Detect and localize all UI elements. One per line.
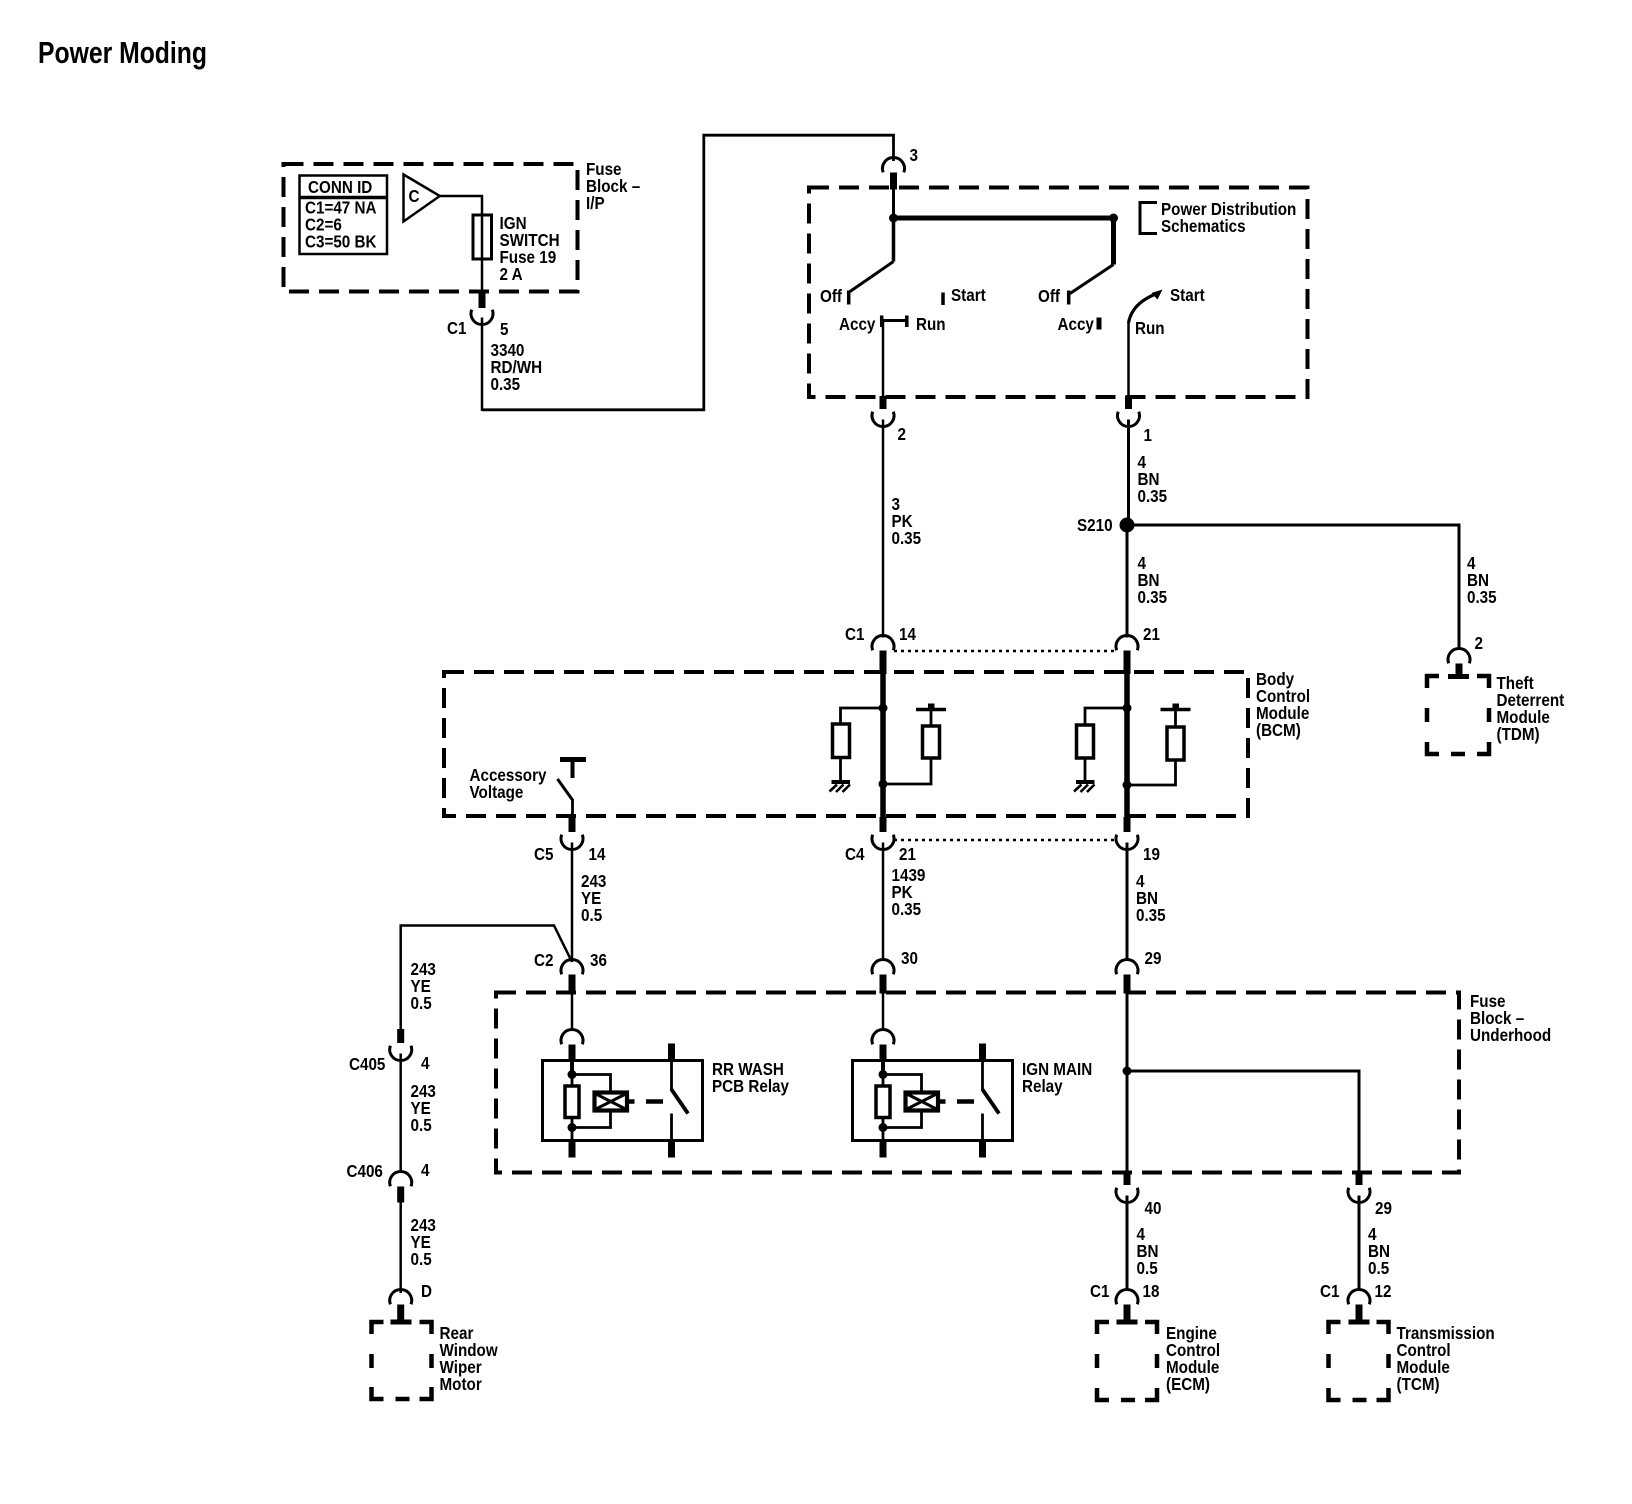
Start terminal tick 1 (941, 293, 945, 306)
wire bar to R2 (930, 711, 933, 726)
accessory voltage label (470, 765, 547, 802)
connector 21 arc (1116, 635, 1138, 650)
svg-text:3: 3 (910, 145, 919, 165)
svg-text:40: 40 (1145, 1198, 1162, 1218)
connector 21 stub (1124, 651, 1131, 675)
Accy terminal tick 2 (1097, 318, 1102, 330)
wire C4 to 30 (882, 843, 885, 962)
relay 2 coil feed wire (881, 1061, 885, 1075)
voltage bar above R2 (916, 708, 946, 712)
connector C5 stub (569, 817, 576, 832)
fuse IGN SWITCH Fuse 19 (473, 215, 492, 259)
wire S210 branch to TDM (1127, 525, 1459, 648)
node junction right top (1123, 704, 1132, 713)
connector 2 stub (880, 396, 887, 409)
svg-text:0.35: 0.35 (1467, 587, 1497, 607)
BCM left main wire (880, 660, 886, 830)
resistor R1 (833, 724, 850, 758)
relay 2 switch lower wire (981, 1114, 984, 1141)
relay 2 resistor wires (882, 1075, 885, 1128)
relay 2 coil junction top (879, 1070, 888, 1079)
IGN MAIN relay box (853, 1061, 1013, 1141)
connector 2 TDM arc (1448, 648, 1470, 663)
relay 1 resistor wires (571, 1075, 574, 1128)
Off terminal tick 2 (1067, 291, 1071, 305)
wire to resistor R1 (841, 708, 884, 724)
wire bar to R4 (1174, 711, 1177, 727)
relay 2 switch bottom stub (979, 1141, 986, 1158)
svg-text:C405: C405 (349, 1054, 386, 1074)
svg-text:4: 4 (421, 1053, 430, 1073)
connector D stub (397, 1305, 404, 1322)
wire label 4 BN 0.5 (TCM) (1368, 1224, 1390, 1278)
power distribution label (1161, 199, 1296, 236)
Start arrowhead 2 (1152, 290, 1163, 300)
svg-text:C4: C4 (845, 844, 865, 864)
connector C1 pin 5 arc (471, 310, 493, 325)
Accy-Run link bar 1 (882, 319, 907, 322)
RR WASH relay box (543, 1061, 703, 1141)
wire C2 into fuse block (571, 994, 574, 1031)
svg-text:PCB Relay: PCB Relay (712, 1076, 789, 1096)
svg-text:Run: Run (1135, 318, 1165, 338)
svg-text:Run: Run (916, 314, 946, 334)
relay 2 coil X-box (906, 1093, 939, 1111)
svg-text:C5: C5 (534, 844, 554, 864)
relay 1 coil junction top (568, 1070, 577, 1079)
connector C406 stub (397, 1187, 404, 1203)
svg-text:2 A: 2 A (500, 264, 523, 284)
wafer 1 output wire (882, 321, 885, 397)
switch wafer 2 input wire (1111, 218, 1116, 265)
wire across and up to connector 3 (482, 135, 894, 410)
connector 29 bottom arc (1348, 1188, 1370, 1203)
relay 1 switch blade (672, 1090, 689, 1114)
fuse block underhood dashed box (496, 993, 1459, 1173)
BCM label (1256, 669, 1310, 740)
switch wafer 1 blade to Off (850, 262, 894, 292)
svg-text:29: 29 (1145, 948, 1162, 968)
ECM dashed box (1097, 1322, 1157, 1400)
relay 1 switch lower wire (670, 1114, 673, 1141)
TDM label (1497, 673, 1565, 744)
connector C1 pin 5 stub (479, 293, 486, 308)
wire triangle to fuse (440, 196, 482, 215)
svg-text:2: 2 (1475, 633, 1484, 653)
svg-text:C1: C1 (1090, 1281, 1110, 1301)
relay 1 resistor (565, 1086, 579, 1118)
node junction left top (879, 704, 888, 713)
svg-text:14: 14 (589, 844, 606, 864)
svg-text:36: 36 (590, 950, 607, 970)
wire label 4 BN 0.35 (TDM branch) (1467, 553, 1497, 607)
TDM pin bar (1448, 674, 1469, 679)
ground (left wire) (830, 782, 851, 792)
resistor R4 (1167, 727, 1184, 760)
relay 1 coil bottom stub (569, 1141, 576, 1158)
svg-text:Motor: Motor (440, 1374, 482, 1394)
svg-text:C: C (409, 186, 420, 206)
connector C1/14 arc (872, 635, 894, 650)
wire label 3 PK 0.35 (892, 494, 922, 548)
wire label 4 BN 0.5 (ECM) (1137, 1224, 1159, 1278)
relay 2 mech link dashes (938, 1099, 974, 1104)
svg-text:C3=50 BK: C3=50 BK (305, 232, 377, 252)
wire C405 to C406 (399, 1054, 402, 1173)
relay 2 coil bottom wire (882, 1128, 885, 1141)
svg-text:30: 30 (901, 948, 918, 968)
relay 2 switch blade (983, 1090, 1000, 1114)
svg-text:Voltage: Voltage (470, 782, 524, 802)
wire label 4 BN 0.35 (19) (1136, 871, 1166, 925)
connector C1/18 stub (1124, 1305, 1131, 1322)
wire C406 to D (399, 1202, 402, 1293)
wire through fuse down to box edge (481, 215, 484, 293)
rear window wiper motor dashed box (372, 1322, 432, 1399)
svg-text:21: 21 (899, 844, 916, 864)
svg-text:0.35: 0.35 (491, 374, 521, 394)
connector 3 arc (883, 157, 905, 172)
connector 1 stub (1125, 396, 1132, 409)
fuse block I/P dashed box (284, 164, 578, 292)
BCM dashed box (444, 672, 1248, 816)
connector triangle C (404, 175, 440, 222)
connector 29 arc (1116, 959, 1138, 974)
wire label 4 BN 0.35 (upper) (1138, 452, 1168, 506)
TCM pin bar (1349, 1320, 1370, 1325)
svg-text:C406: C406 (347, 1161, 384, 1181)
wire R3 to ground (1084, 758, 1087, 782)
Off terminal tick 1 (847, 291, 851, 305)
svg-text:4: 4 (421, 1160, 430, 1180)
connector C406 arc (390, 1171, 412, 1186)
TCM label (1397, 1323, 1495, 1394)
svg-text:0.35: 0.35 (1136, 905, 1166, 925)
connector C1/12 stub (1356, 1305, 1363, 1322)
IGN MAIN relay label (1022, 1059, 1092, 1096)
wire label 1439 PK 0.35 (892, 865, 926, 919)
svg-text:0.5: 0.5 (581, 905, 602, 925)
wire stub into junction (892, 189, 895, 218)
svg-text:0.35: 0.35 (1138, 486, 1168, 506)
svg-text:18: 18 (1143, 1281, 1160, 1301)
relay 1 coil loop (572, 1075, 611, 1128)
ground (right wire) (1074, 782, 1095, 792)
node junction left bottom (879, 780, 888, 789)
relay 1 coil bottom wire (571, 1128, 574, 1141)
svg-text:12: 12 (1375, 1281, 1392, 1301)
svg-text:(TDM): (TDM) (1497, 724, 1540, 744)
svg-text:1: 1 (1144, 425, 1153, 445)
relay 1 switch bottom stub (668, 1141, 675, 1158)
svg-text:(TCM): (TCM) (1397, 1374, 1440, 1394)
relay 1 coil X-box (595, 1093, 628, 1111)
svg-text:Schematics: Schematics (1161, 216, 1246, 236)
power distribution bracket (1140, 203, 1157, 234)
connector C2 arc (561, 959, 583, 974)
relay 2 switch top stub (979, 1044, 986, 1061)
wire R4 down (1127, 760, 1176, 785)
connector C1/12 arc (1348, 1289, 1370, 1304)
relay socket stub (RR WASH) (569, 1045, 576, 1061)
voltage bar tick 2 (1173, 704, 1180, 710)
svg-text:S210: S210 (1077, 515, 1113, 535)
svg-text:D: D (421, 1281, 432, 1301)
svg-text:19: 19 (1143, 844, 1160, 864)
accessory voltage contact stem (571, 762, 575, 778)
svg-text:0.35: 0.35 (892, 899, 922, 919)
svg-text:Start: Start (1170, 285, 1205, 305)
wire label 4 BN 0.35 (below S210) (1138, 553, 1168, 607)
relay 1 mech link dashes (627, 1099, 663, 1104)
TDM dashed box (1427, 676, 1489, 754)
relay socket arc (IGN MAIN) (872, 1029, 894, 1044)
relay 1 switch upper wire (670, 1061, 673, 1092)
wire label 243 YE 0.5 (C406) (411, 1215, 437, 1269)
svg-text:Accy: Accy (839, 314, 876, 334)
svg-text:0.35: 0.35 (892, 528, 922, 548)
connector 29 bottom stub (1356, 1172, 1363, 1185)
svg-text:Off: Off (820, 286, 842, 306)
wire 40 to C1/18 (1126, 1196, 1129, 1292)
connector 30 stub (880, 975, 887, 994)
splice S210 (1120, 518, 1135, 533)
wire 1 to S210 (1127, 420, 1130, 526)
svg-text:21: 21 (1143, 624, 1160, 644)
wire 29 to C1/12 (1358, 1196, 1361, 1292)
connector C1/18 arc (1116, 1289, 1138, 1304)
TCM dashed box (1329, 1322, 1389, 1400)
connector 2 TDM stub (1456, 664, 1463, 677)
fuse label (500, 213, 560, 284)
svg-text:Start: Start (951, 285, 986, 305)
connector 40 arc (1116, 1188, 1138, 1203)
resistor R3 (1077, 725, 1094, 758)
svg-text:0.5: 0.5 (1137, 1258, 1158, 1278)
svg-text:2: 2 (898, 424, 907, 444)
svg-text:CONN ID: CONN ID (308, 177, 372, 197)
wire 30 into fuse block (882, 994, 885, 1031)
relay 2 resistor (876, 1086, 890, 1118)
branch wire to TCM side (1127, 1071, 1359, 1172)
connector 3 stub (890, 173, 897, 190)
Run terminal tick 1 (905, 316, 909, 328)
connector 19 stub (1124, 817, 1131, 832)
wire label 243 YE 0.5 (C5) (581, 871, 607, 925)
svg-text:0.5: 0.5 (411, 1115, 432, 1135)
wire R2 down (883, 758, 931, 784)
connector 40 stub (1124, 1172, 1131, 1185)
svg-text:5: 5 (500, 319, 509, 339)
svg-text:I/P: I/P (586, 193, 605, 213)
connector C4 stub (880, 817, 887, 832)
wafer 2 output wire (1127, 322, 1130, 396)
svg-text:Relay: Relay (1022, 1076, 1063, 1096)
connector D arc (390, 1289, 412, 1304)
connector C405 stub (397, 1029, 404, 1043)
connector C1/14 stub (880, 651, 887, 675)
ECM pin bar (1117, 1320, 1138, 1325)
RR WASH relay label (712, 1059, 789, 1096)
relay 2 coil loop (883, 1075, 922, 1128)
node junction right bottom (1123, 781, 1132, 790)
ignition switch dashed box (809, 188, 1308, 398)
wire to resistor R3 (1085, 708, 1127, 725)
wire 29 through fuse block (1126, 994, 1129, 1173)
accessory voltage switch blade (558, 779, 573, 800)
connector C405 arc (390, 1046, 412, 1061)
relay 2 coil bottom stub (880, 1141, 887, 1158)
svg-text:Underhood: Underhood (1470, 1025, 1551, 1045)
connector C5 arc (561, 835, 583, 850)
relay socket arc (RR WASH) (561, 1029, 583, 1044)
switch wafer 1 input wire (892, 218, 896, 262)
relay 1 switch top stub (668, 1044, 675, 1061)
svg-text:29: 29 (1375, 1198, 1392, 1218)
connector C2 stub (569, 975, 576, 994)
svg-text:(ECM): (ECM) (1166, 1374, 1210, 1394)
svg-text:Off: Off (1038, 286, 1060, 306)
svg-text:C2: C2 (534, 950, 554, 970)
voltage bar tick (928, 704, 935, 710)
wire 19 to 29 (1126, 843, 1129, 962)
feed wire junction to junction (894, 216, 1114, 221)
svg-text:0.5: 0.5 (411, 993, 432, 1013)
svg-text:0.5: 0.5 (411, 1249, 432, 1269)
wire label 243 YE 0.5 (branch) (411, 959, 437, 1013)
wire R1 to ground (839, 758, 842, 783)
switch wafer 2 blade to Off (1070, 265, 1114, 294)
svg-text:0.35: 0.35 (1138, 587, 1168, 607)
connector 1 arc (1118, 412, 1140, 427)
rear window wiper motor label (440, 1323, 499, 1394)
connector 30 arc (872, 959, 894, 974)
relay 2 switch upper wire (981, 1061, 984, 1092)
wire S210 down to 21 (1126, 525, 1129, 638)
wire C5 to C2 (571, 843, 574, 963)
svg-text:Power Moding: Power Moding (38, 35, 207, 70)
BCM right main wire (1124, 660, 1130, 830)
relay 1 coil junction bottom (568, 1123, 577, 1132)
wire C1/5 down (481, 318, 484, 412)
dotted connector line top (894, 650, 1116, 653)
svg-text:(BCM): (BCM) (1256, 720, 1301, 740)
wire 2 to C1/14 (882, 420, 885, 638)
Accy terminal tick 1 (880, 316, 884, 328)
wire label 3340 RD/WH 0.35 (491, 340, 543, 394)
svg-text:0.5: 0.5 (1368, 1258, 1389, 1278)
wire label 243 YE 0.5 (C405) (411, 1081, 437, 1135)
CONN ID table (300, 176, 388, 255)
resistor R2 (923, 726, 940, 758)
connector 29 stub (1124, 975, 1131, 994)
relay socket stub (IGN MAIN) (880, 1045, 887, 1061)
svg-text:C1: C1 (447, 318, 467, 338)
fuse block underhood label (1470, 991, 1551, 1045)
svg-text:Accy: Accy (1058, 314, 1095, 334)
relay 1 coil feed wire (570, 1061, 574, 1075)
junction dot A (889, 214, 898, 223)
wiper motor pin bar (391, 1320, 412, 1325)
connector 19 arc (1116, 835, 1138, 850)
accessory voltage output wire (571, 799, 574, 817)
ECM label (1166, 1323, 1220, 1394)
node junction fuse block (1123, 1067, 1132, 1076)
connector 2 arc (872, 412, 894, 427)
fuse block I/P label (586, 159, 640, 213)
connector C4 arc (872, 835, 894, 850)
voltage bar above R4 (1161, 708, 1191, 712)
relay 2 coil junction bottom (879, 1123, 888, 1132)
svg-text:C1: C1 (1320, 1281, 1340, 1301)
branch wire from C2 to C405 (401, 926, 572, 1030)
junction dot B (1109, 214, 1118, 223)
svg-text:14: 14 (899, 624, 916, 644)
wafer 2 curved blade to Start (1129, 294, 1158, 324)
svg-text:C1: C1 (845, 624, 865, 644)
dotted connector line bottom (894, 839, 1116, 842)
accessory voltage contact bar (560, 757, 586, 762)
